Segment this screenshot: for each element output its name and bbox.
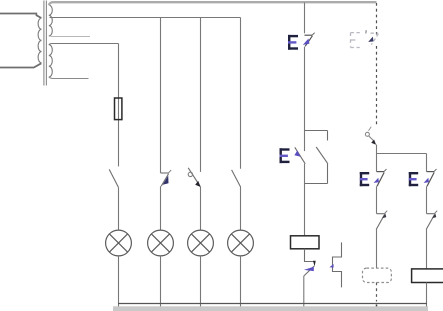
switch S2 pushbutton: [161, 170, 172, 186]
lamp H4: [228, 230, 254, 256]
wire branch1 lamp to bus: [118, 256, 120, 308]
lamp H3: [188, 230, 214, 256]
wire branch2 drop: [160, 18, 162, 174]
wire branch1 switch to lamp: [118, 187, 120, 230]
label E pushbutton E2: [280, 148, 290, 163]
wire branch4 switch to lamp: [240, 187, 242, 230]
wire branch3 lamp to bus: [200, 256, 202, 308]
wire middle column to coil: [304, 164, 306, 236]
transformer T1 secondary winding upper: [49, 5, 53, 36]
wire right sub-branch middle: [426, 186, 428, 213]
wire second bus to lamp branches: [50, 17, 241, 19]
wire right sub-branch to bus: [426, 283, 428, 309]
wire bottom tap stub: [49, 77, 89, 79]
wire top bus from secondary tap to dashed column: [49, 2, 377, 5]
wire middle column to bottom bus: [303, 276, 305, 308]
transformer T1 secondary winding lower: [49, 45, 53, 77]
switch with loop actuator on right column: [365, 127, 376, 145]
label E pushbutton E3: [360, 172, 369, 186]
lamp H2: [148, 230, 174, 256]
pushbutton contact E1: [303, 33, 315, 47]
bottom page border band: [113, 306, 428, 311]
switch S3 with loop actuator: [188, 168, 200, 187]
wire branch2 switch to lamp: [160, 186, 162, 230]
wire left sub-branch to dashed box: [376, 230, 378, 269]
switch S1: [109, 169, 118, 187]
wire branch3 drop: [200, 18, 202, 172]
relay contact left sub-branch: [376, 211, 387, 230]
wire branch4 lamp to bus: [240, 256, 242, 308]
transformer T1 core: [44, 1, 47, 86]
wire branch4 drop: [240, 18, 242, 169]
relay coil K1: [291, 236, 320, 249]
wire middle column to parallel contact: [304, 47, 306, 152]
wire branch1 drop through fuse: [118, 44, 120, 167]
relay contact right sub-branch: [426, 211, 437, 230]
label E pushbutton E4: [409, 172, 418, 186]
label E pushbutton E1: [288, 35, 298, 50]
dashed wire top right column: [376, 3, 378, 35]
bottom bus wire: [118, 303, 427, 305]
wire branch2 lamp to bus: [160, 256, 162, 308]
relay contact below coil: [304, 249, 316, 276]
wire branch3 switch to lamp: [200, 187, 202, 231]
wire primary bottom N: [0, 63, 41, 67]
dashed coil box (ghost): [363, 268, 392, 282]
wire unconnected tap stub (light): [51, 36, 91, 38]
wire right sub-branch upper: [426, 154, 428, 172]
wire middle column from top bus: [304, 3, 306, 34]
auxiliary changeover contact (floating): [329, 242, 341, 287]
fuse F1: [115, 98, 122, 120]
wire primary top L1: [0, 14, 41, 19]
wire left sub-branch upper: [376, 154, 378, 172]
wire right sub-branch to coil: [426, 230, 428, 269]
ghost pushbutton E (dashed): [351, 30, 379, 47]
pushbutton contact E3: [374, 169, 387, 186]
pushbutton contact E2: [294, 147, 305, 164]
parallel contact loop of impulse relay: [305, 131, 328, 184]
switch S4: [232, 170, 241, 187]
transformer T1 primary winding: [38, 18, 41, 63]
lamp H1: [106, 230, 132, 256]
wire tap to fuse branch: [49, 44, 119, 45]
wire split junction right columns: [377, 145, 427, 154]
relay coil K2 (clipped at edge): [412, 269, 443, 283]
pushbutton contact E4: [424, 169, 437, 186]
dashed wire to loop switch: [376, 46, 378, 126]
dashed wire below box: [376, 283, 378, 309]
wire left sub-branch middle: [376, 186, 378, 213]
